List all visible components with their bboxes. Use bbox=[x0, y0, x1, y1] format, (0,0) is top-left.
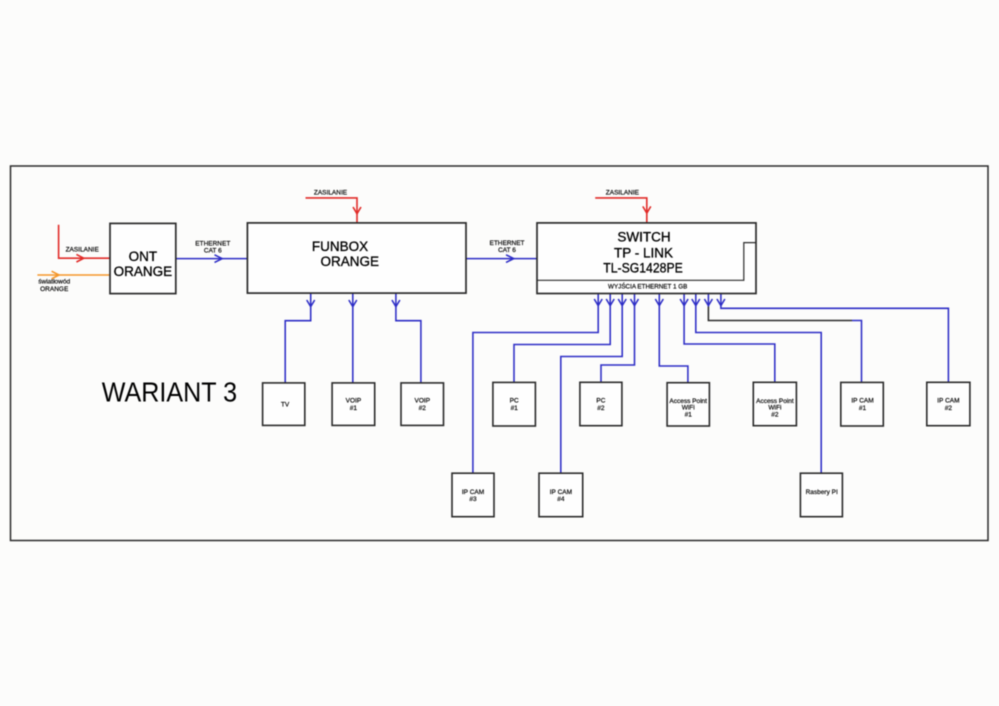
svg-text:CAT 6: CAT 6 bbox=[204, 247, 222, 254]
svg-text:ZASILANIE: ZASILANIE bbox=[66, 247, 100, 254]
svg-text:#2: #2 bbox=[597, 405, 605, 412]
svg-text:ZASILANIE: ZASILANIE bbox=[314, 190, 348, 197]
svg-text:#1: #1 bbox=[511, 405, 519, 412]
svg-text:ZASILANIE: ZASILANIE bbox=[606, 190, 640, 197]
svg-text:CAT 6: CAT 6 bbox=[498, 247, 516, 254]
svg-text:ORANGE: ORANGE bbox=[40, 286, 69, 293]
svg-text:FUNBOX: FUNBOX bbox=[312, 239, 368, 254]
svg-text:TP - LINK: TP - LINK bbox=[614, 246, 673, 261]
svg-text:ETHERNET: ETHERNET bbox=[489, 240, 524, 247]
svg-text:#4: #4 bbox=[557, 496, 565, 503]
svg-text:#2: #2 bbox=[945, 405, 953, 412]
svg-text:WARIANT 3: WARIANT 3 bbox=[102, 377, 237, 408]
svg-text:#3: #3 bbox=[469, 496, 477, 503]
svg-text:IP CAM: IP CAM bbox=[462, 489, 484, 496]
svg-text:IP CAM: IP CAM bbox=[550, 489, 572, 496]
svg-text:ORANGE: ORANGE bbox=[320, 254, 379, 269]
svg-text:Rasbery PI: Rasbery PI bbox=[806, 489, 838, 496]
svg-text:#1: #1 bbox=[859, 405, 867, 412]
svg-text:ONT: ONT bbox=[129, 249, 158, 264]
svg-text:IP CAM: IP CAM bbox=[937, 398, 959, 405]
svg-text:#2: #2 bbox=[419, 405, 427, 412]
svg-text:SWITCH: SWITCH bbox=[617, 230, 670, 245]
svg-text:VOIP: VOIP bbox=[346, 398, 362, 405]
svg-text:#1: #1 bbox=[350, 405, 358, 412]
svg-text:PC: PC bbox=[510, 398, 519, 405]
svg-text:TV: TV bbox=[281, 402, 290, 409]
svg-text:IP CAM: IP CAM bbox=[851, 398, 873, 405]
svg-text:WYJŚCIA ETHERNET 1 GB: WYJŚCIA ETHERNET 1 GB bbox=[608, 282, 687, 291]
svg-text:VOIP: VOIP bbox=[415, 398, 431, 405]
svg-text:TL-SG1428PE: TL-SG1428PE bbox=[603, 261, 683, 276]
svg-text:#2: #2 bbox=[771, 412, 779, 419]
svg-text:światłowód: światłowód bbox=[38, 279, 70, 286]
svg-text:PC: PC bbox=[596, 398, 605, 405]
svg-text:#1: #1 bbox=[685, 412, 693, 419]
svg-text:ORANGE: ORANGE bbox=[114, 264, 173, 279]
